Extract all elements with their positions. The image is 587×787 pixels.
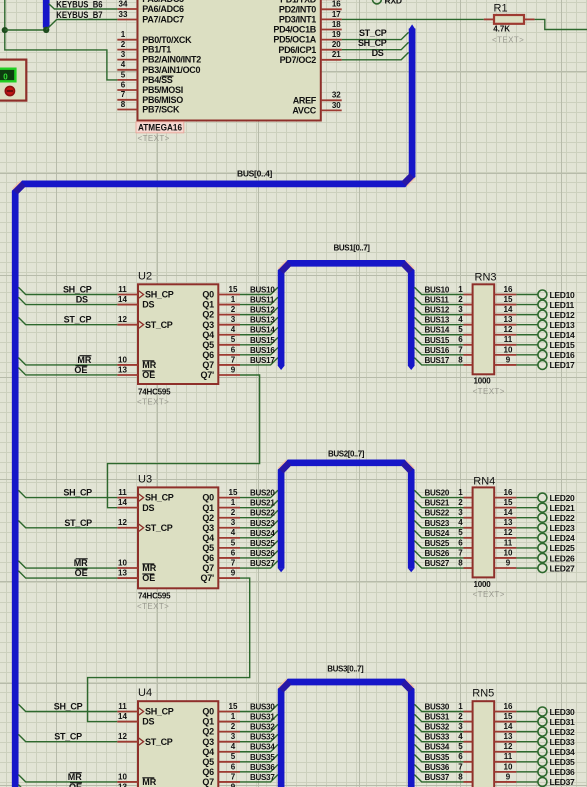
svg-text:7: 7 bbox=[121, 90, 126, 99]
svg-text:9: 9 bbox=[506, 355, 511, 364]
wire net BUS10 from bus BUS1 to RN3 pin 1 bbox=[414, 286, 463, 295]
RN4 pin 6 bbox=[458, 538, 472, 548]
svg-text:14: 14 bbox=[118, 498, 127, 507]
svg-text:16: 16 bbox=[504, 488, 513, 497]
svg-text:R1: R1 bbox=[494, 3, 508, 15]
RN5 pin 14 bbox=[494, 722, 516, 732]
U2 pin 7 (Q7) bbox=[202, 355, 240, 370]
U2 pin 6 (Q6) bbox=[202, 345, 240, 360]
RN4 pin 14 bbox=[494, 508, 516, 518]
svg-text:Q4: Q4 bbox=[202, 330, 214, 340]
resistor R1 (4.7K) bbox=[484, 3, 535, 45]
RN5 pin 12 bbox=[494, 742, 516, 752]
svg-text:BUS24: BUS24 bbox=[425, 529, 450, 538]
svg-text:3: 3 bbox=[121, 50, 126, 59]
wire net BUS16 from U2.Q6 to bus BUS1 bbox=[240, 346, 278, 355]
svg-text:14: 14 bbox=[504, 508, 513, 517]
svg-text:BUS15: BUS15 bbox=[250, 336, 275, 345]
svg-text:74HC595: 74HC595 bbox=[138, 592, 171, 601]
wire net BUS33 from U4.Q3 to bus BUS3 bbox=[240, 733, 278, 742]
svg-text:13: 13 bbox=[118, 568, 127, 577]
RN5 pin 9 bbox=[494, 772, 516, 782]
svg-text:4: 4 bbox=[458, 315, 463, 324]
wire net BUS27 from bus BUS2 to RN4 pin 8 bbox=[414, 559, 463, 568]
terminal LED20 bbox=[516, 493, 575, 503]
U2 pin 11 (SH_CP) bbox=[117, 285, 174, 300]
RN3 pin 13 bbox=[494, 315, 516, 325]
red button of left component bbox=[5, 86, 14, 95]
wire: junction to KEY BUS tip bbox=[5, 29, 46, 31]
U4 pin 9 (Q7') bbox=[201, 782, 240, 787]
svg-text:BUS17: BUS17 bbox=[425, 356, 450, 365]
wire net BUS25 from bus BUS2 to RN4 pin 6 bbox=[414, 539, 463, 548]
wire net BUS35 from U4.Q5 to bus BUS3 bbox=[240, 753, 278, 762]
terminal LED21 bbox=[516, 503, 575, 513]
RN4 pin 2 bbox=[458, 498, 472, 508]
wire net BUS20 from U3.Q0 to bus BUS2 bbox=[240, 489, 278, 498]
U1 pin 21 (PD7/OC2) bbox=[280, 50, 342, 65]
terminal LED24 bbox=[516, 533, 575, 543]
U3 pin 3 (Q3) bbox=[202, 518, 240, 533]
svg-text:BUS31: BUS31 bbox=[250, 713, 275, 722]
RN4 value 1000 bbox=[473, 580, 505, 599]
RN3 value 1000 bbox=[473, 377, 505, 396]
svg-text:13: 13 bbox=[504, 732, 513, 741]
svg-text:LED26: LED26 bbox=[550, 553, 576, 563]
U2 pin 5 (Q5) bbox=[202, 335, 240, 350]
RN3 pin 2 bbox=[458, 295, 472, 305]
svg-text:1: 1 bbox=[231, 498, 236, 507]
svg-text:PB0/T0/XCK: PB0/T0/XCK bbox=[142, 35, 192, 45]
svg-text:ATMEGA16: ATMEGA16 bbox=[138, 123, 182, 133]
wire net BUS31 from bus BUS3 to RN5 pin 2 bbox=[414, 713, 463, 722]
wire net BUS22 from U3.Q2 to bus BUS2 bbox=[240, 509, 278, 518]
U2 pin 9 (Q7') bbox=[201, 365, 240, 380]
svg-text:16: 16 bbox=[332, 0, 341, 9]
terminal LED12 bbox=[516, 310, 575, 320]
wire net BUS21 from U3.Q1 to bus BUS2 bbox=[240, 499, 278, 508]
svg-text:2: 2 bbox=[458, 498, 463, 507]
svg-text:Q7: Q7 bbox=[202, 777, 214, 787]
svg-text:6: 6 bbox=[458, 335, 463, 344]
wire net BUS27 from U3.Q7 to bus BUS2 bbox=[240, 559, 278, 568]
svg-text:6: 6 bbox=[458, 752, 463, 761]
svg-text:14: 14 bbox=[504, 722, 513, 731]
svg-text:<TEXT>: <TEXT> bbox=[137, 398, 169, 407]
svg-text:<TEXT>: <TEXT> bbox=[138, 134, 170, 143]
svg-text:PD2/INT0: PD2/INT0 bbox=[279, 4, 316, 14]
resistor network RN4 (1000) bbox=[473, 475, 496, 577]
svg-text:Q1: Q1 bbox=[202, 717, 214, 727]
svg-text:1000: 1000 bbox=[474, 377, 492, 386]
svg-text:6: 6 bbox=[231, 548, 236, 557]
RN5 pin 5 bbox=[458, 742, 472, 752]
U2 pin 15 (Q0) bbox=[202, 285, 240, 300]
svg-text:U4: U4 bbox=[138, 687, 152, 699]
terminal LED11 bbox=[516, 300, 574, 310]
U1 value placeholder bbox=[138, 134, 170, 143]
wire net BUS32 from bus BUS3 to RN5 pin 3 bbox=[414, 723, 463, 732]
RN3 pin 5 bbox=[458, 325, 472, 335]
svg-text:6: 6 bbox=[458, 538, 463, 547]
wire net BUS23 from bus BUS2 to RN4 pin 4 bbox=[414, 519, 463, 528]
svg-text:SH_CP: SH_CP bbox=[145, 493, 174, 503]
U1 pin 1 (PB0/T0/XCK) bbox=[117, 30, 192, 45]
svg-text:7: 7 bbox=[231, 558, 236, 567]
svg-text:SH_CP: SH_CP bbox=[54, 702, 83, 712]
svg-text:AVCC: AVCC bbox=[292, 106, 316, 116]
svg-text:SH_CP: SH_CP bbox=[145, 707, 174, 717]
svg-text:Q7: Q7 bbox=[202, 360, 214, 370]
svg-text:18: 18 bbox=[332, 20, 341, 29]
svg-text:Q1: Q1 bbox=[202, 300, 214, 310]
bus BUS2[0..7] bbox=[278, 450, 415, 573]
wire net BUS21 from bus BUS2 to RN4 pin 2 bbox=[414, 499, 463, 508]
wire net BUS32 from U4.Q2 to bus BUS3 bbox=[240, 723, 278, 732]
wire net OE from bus to U2 bbox=[18, 365, 117, 375]
wire net BUS26 from U3.Q6 to bus BUS2 bbox=[240, 549, 278, 558]
svg-text:Q0: Q0 bbox=[202, 707, 214, 717]
svg-text:12: 12 bbox=[118, 518, 127, 527]
svg-text:LED31: LED31 bbox=[550, 717, 576, 727]
svg-text:2: 2 bbox=[458, 712, 463, 721]
svg-text:8: 8 bbox=[121, 100, 126, 109]
RN4 pin 5 bbox=[458, 528, 472, 538]
U1 part name label ATMEGA16 bbox=[136, 122, 184, 133]
svg-text:BUS32: BUS32 bbox=[425, 723, 450, 732]
svg-text:7: 7 bbox=[458, 548, 463, 557]
svg-text:BUS27: BUS27 bbox=[250, 559, 275, 568]
U1 pin 18 (PD4/OC1B) bbox=[273, 20, 341, 35]
U4 pin 13 (OE) bbox=[117, 782, 155, 787]
U4 pin 10 (MR) bbox=[117, 772, 156, 787]
svg-text:4.7K: 4.7K bbox=[493, 24, 510, 33]
svg-text:MR: MR bbox=[74, 558, 88, 568]
wire net SH_CP from bus to U3 bbox=[18, 488, 117, 498]
wire net MR from bus to U3 bbox=[18, 558, 117, 568]
bus BUS[0..4] main control bus bbox=[13, 24, 416, 787]
wire net BUS37 from U4.Q7 to bus BUS3 bbox=[240, 773, 278, 782]
svg-text:5: 5 bbox=[231, 335, 236, 344]
wire net BUS24 from U3.Q4 to bus BUS2 bbox=[240, 529, 278, 538]
svg-text:LED30: LED30 bbox=[550, 707, 576, 717]
svg-text:ST_CP: ST_CP bbox=[359, 28, 387, 38]
U3 pin 1 (Q1) bbox=[202, 498, 240, 513]
U1 pin 19 (PD5/OC1A) bbox=[273, 30, 341, 45]
svg-text:Q3: Q3 bbox=[202, 737, 214, 747]
svg-text:LED22: LED22 bbox=[550, 513, 576, 523]
wire net BUS25 from U3.Q5 to bus BUS2 bbox=[240, 539, 278, 548]
RN4 pin 7 bbox=[458, 548, 472, 558]
svg-text:PD4/OC1B: PD4/OC1B bbox=[273, 25, 316, 35]
terminal LED26 bbox=[516, 553, 575, 563]
svg-text:15: 15 bbox=[504, 498, 513, 507]
svg-text:BUS11: BUS11 bbox=[425, 296, 450, 305]
svg-text:10: 10 bbox=[504, 345, 513, 354]
svg-text:15: 15 bbox=[504, 295, 513, 304]
U4 pin 11 (SH_CP) bbox=[117, 702, 174, 717]
terminal LED14 bbox=[516, 330, 575, 340]
svg-text:3: 3 bbox=[231, 732, 236, 741]
resistor network RN3 (1000) bbox=[473, 271, 497, 374]
svg-text:Q6: Q6 bbox=[202, 767, 214, 777]
RN3 pin 6 bbox=[458, 335, 472, 345]
svg-text:BUS30: BUS30 bbox=[250, 703, 275, 712]
wire net MR from bus to U4 bbox=[18, 772, 117, 782]
U1 pin 16 (PD2/INT0) bbox=[279, 0, 342, 14]
RN3 pin 12 bbox=[494, 325, 516, 335]
svg-text:Q7': Q7' bbox=[201, 573, 214, 583]
resistor network RN5 (1000) bbox=[472, 687, 494, 787]
svg-text:LED13: LED13 bbox=[550, 320, 576, 330]
RN4 pin 1 bbox=[458, 488, 472, 498]
junction on left vertical wire bbox=[2, 27, 8, 33]
svg-text:DS: DS bbox=[142, 300, 154, 310]
svg-text:4: 4 bbox=[458, 518, 463, 527]
wire ST_CP from U1 PD5/OC1A to bus bbox=[342, 28, 409, 40]
U1 pin 35 (PA5/ADC5) bbox=[117, 0, 184, 4]
svg-text:RN4: RN4 bbox=[473, 475, 495, 487]
svg-text:Q2: Q2 bbox=[202, 727, 214, 737]
U4 pin 5 (Q5) bbox=[202, 752, 240, 767]
bus BUS1[0..7] bbox=[278, 243, 415, 370]
RN4 pin 10 bbox=[494, 548, 516, 558]
svg-text:RXD: RXD bbox=[385, 0, 402, 6]
wire net BUS17 from U2.Q7 to bus BUS1 bbox=[240, 356, 278, 365]
svg-text:33: 33 bbox=[119, 10, 128, 19]
svg-text:<TEXT>: <TEXT> bbox=[492, 35, 524, 44]
svg-text:9: 9 bbox=[506, 772, 511, 781]
svg-text:17: 17 bbox=[332, 10, 341, 19]
wire net BUS34 from U4.Q4 to bus BUS3 bbox=[240, 743, 278, 752]
U4 pin 1 (Q1) bbox=[202, 712, 240, 727]
svg-text:Q2: Q2 bbox=[202, 513, 214, 523]
svg-text:BUS21: BUS21 bbox=[425, 499, 450, 508]
svg-text:12: 12 bbox=[504, 528, 513, 537]
svg-text:1000: 1000 bbox=[474, 580, 492, 589]
RN3 pin 16 bbox=[494, 285, 516, 295]
svg-text:13: 13 bbox=[504, 518, 513, 527]
svg-text:OE: OE bbox=[142, 370, 155, 380]
svg-text:BUS12: BUS12 bbox=[250, 306, 275, 315]
U4 pin 4 (Q4) bbox=[202, 742, 240, 757]
svg-text:7: 7 bbox=[458, 762, 463, 771]
U4 pin 2 (Q2) bbox=[202, 722, 240, 737]
svg-text:7: 7 bbox=[231, 772, 236, 781]
RN3 pin 1 bbox=[458, 285, 472, 295]
IC U2 74HC595 bbox=[138, 270, 218, 384]
RN4 pin 11 bbox=[494, 538, 516, 548]
U2 pin 14 (DS) bbox=[117, 295, 154, 310]
svg-text:3: 3 bbox=[458, 722, 463, 731]
svg-text:Q2: Q2 bbox=[202, 310, 214, 320]
svg-text:10: 10 bbox=[504, 548, 513, 557]
svg-text:OE: OE bbox=[75, 568, 88, 578]
wire cascade U3.Q7' to U4.DS bbox=[88, 578, 250, 722]
wire net BUS23 from U3.Q3 to bus BUS2 bbox=[240, 519, 278, 528]
RN3 pin 7 bbox=[458, 345, 472, 355]
wire net BUS33 from bus BUS3 to RN5 pin 4 bbox=[414, 733, 463, 742]
svg-text:16: 16 bbox=[504, 285, 513, 294]
svg-text:LED34: LED34 bbox=[550, 747, 576, 757]
wire net SH_CP from bus to U4 bbox=[18, 702, 117, 712]
svg-text:2: 2 bbox=[231, 508, 236, 517]
svg-text:13: 13 bbox=[118, 782, 127, 787]
U1 pin 20 (PD6/ICP1) bbox=[278, 40, 341, 55]
svg-text:11: 11 bbox=[504, 335, 513, 344]
svg-text:4: 4 bbox=[231, 742, 236, 751]
svg-text:BUS17: BUS17 bbox=[250, 356, 275, 365]
svg-text:BUS11: BUS11 bbox=[250, 296, 275, 305]
svg-text:PD6/ICP1: PD6/ICP1 bbox=[278, 45, 316, 55]
RN4 pin 15 bbox=[494, 498, 516, 508]
U3 pin 5 (Q5) bbox=[202, 538, 240, 553]
svg-text:DS: DS bbox=[76, 295, 88, 305]
svg-text:PB5/MOSI: PB5/MOSI bbox=[142, 85, 183, 95]
wire net ST_CP from bus to U2 bbox=[18, 315, 117, 325]
svg-text:BUS24: BUS24 bbox=[250, 529, 275, 538]
svg-text:8: 8 bbox=[458, 355, 463, 364]
U1 pin 4 (PB3/AIN1/OC0) bbox=[117, 60, 200, 75]
svg-text:BUS23: BUS23 bbox=[425, 519, 450, 528]
svg-text:MR: MR bbox=[68, 772, 82, 782]
U2 pin 1 (Q1) bbox=[202, 295, 240, 310]
wire net BUS26 from bus BUS2 to RN4 pin 7 bbox=[414, 549, 463, 558]
U1 pin 32 (AREF) bbox=[293, 91, 342, 106]
RN4 pin 9 bbox=[494, 558, 516, 568]
IC U4 74HC595 bbox=[138, 687, 218, 787]
IC U3 74HC595 bbox=[138, 473, 218, 588]
wire net BUS15 from U2.Q5 to bus BUS1 bbox=[240, 336, 278, 345]
wire net BUS34 from bus BUS3 to RN5 pin 5 bbox=[414, 743, 463, 752]
RN3 pin 11 bbox=[494, 335, 516, 345]
svg-text:5: 5 bbox=[231, 752, 236, 761]
svg-text:1: 1 bbox=[458, 488, 463, 497]
svg-text:ST_CP: ST_CP bbox=[145, 320, 173, 330]
svg-text:BUS10: BUS10 bbox=[250, 286, 275, 295]
U2 pin 3 (Q3) bbox=[202, 315, 240, 330]
svg-text:<TEXT>: <TEXT> bbox=[473, 387, 505, 396]
wire net BUS16 from bus BUS1 to RN3 pin 7 bbox=[414, 346, 463, 355]
svg-text:BUS36: BUS36 bbox=[250, 763, 275, 772]
terminal LED37 bbox=[516, 777, 575, 787]
wire net BUS36 from U4.Q6 to bus BUS3 bbox=[240, 763, 278, 772]
svg-text:15: 15 bbox=[229, 702, 238, 711]
svg-text:DS: DS bbox=[142, 503, 154, 513]
wire net BUS13 from bus BUS1 to RN3 pin 4 bbox=[414, 316, 463, 325]
terminal LED33 bbox=[516, 737, 575, 747]
svg-text:8: 8 bbox=[458, 558, 463, 567]
svg-text:LED32: LED32 bbox=[550, 727, 576, 737]
svg-text:DS: DS bbox=[142, 717, 154, 727]
wire net OE from bus to U4 bbox=[18, 782, 117, 787]
svg-text:LED27: LED27 bbox=[550, 563, 576, 573]
svg-text:<TEXT>: <TEXT> bbox=[473, 590, 505, 599]
svg-text:5: 5 bbox=[121, 70, 126, 79]
svg-text:BUS26: BUS26 bbox=[250, 549, 275, 558]
svg-text:LED20: LED20 bbox=[550, 493, 576, 503]
wire net BUS30 from U4.Q0 to bus BUS3 bbox=[240, 703, 278, 712]
svg-text:Q5: Q5 bbox=[202, 543, 214, 553]
svg-text:BUS23: BUS23 bbox=[250, 519, 275, 528]
svg-text:BUS2[0..7]: BUS2[0..7] bbox=[328, 450, 365, 459]
svg-text:1: 1 bbox=[121, 30, 126, 39]
svg-text:10: 10 bbox=[118, 772, 127, 781]
svg-text:LED21: LED21 bbox=[550, 503, 576, 513]
svg-text:4: 4 bbox=[231, 325, 236, 334]
wire net BUS12 from bus BUS1 to RN3 pin 3 bbox=[414, 306, 463, 315]
RN3 pin 14 bbox=[494, 305, 516, 315]
svg-text:BUS22: BUS22 bbox=[250, 509, 275, 518]
terminal LED34 bbox=[516, 747, 575, 757]
svg-text:12: 12 bbox=[118, 315, 127, 324]
svg-text:10: 10 bbox=[118, 558, 127, 567]
wire net BUS30 from bus BUS3 to RN5 pin 1 bbox=[414, 703, 463, 712]
svg-text:11: 11 bbox=[118, 285, 127, 294]
wire U1 PD3/INT1 to R1 bbox=[342, 18, 484, 20]
RN3 pin 9 bbox=[494, 355, 516, 365]
svg-text:ST_CP: ST_CP bbox=[145, 523, 173, 533]
svg-text:BUS35: BUS35 bbox=[425, 753, 450, 762]
wire net BUS20 from bus BUS2 to RN4 pin 1 bbox=[414, 489, 463, 498]
U1 pin 34 (PA6/ADC6) bbox=[117, 0, 184, 14]
svg-text:LED17: LED17 bbox=[550, 360, 576, 370]
U4 pin 7 (Q7) bbox=[202, 772, 240, 787]
svg-text:11: 11 bbox=[504, 752, 513, 761]
svg-text:6: 6 bbox=[231, 345, 236, 354]
svg-text:BUS34: BUS34 bbox=[250, 743, 275, 752]
U2 pin 12 (ST_CP) bbox=[117, 315, 173, 330]
U3 pin 15 (Q0) bbox=[202, 488, 240, 503]
terminal LED23 bbox=[516, 523, 575, 533]
svg-text:12: 12 bbox=[504, 742, 513, 751]
wire net BUS13 from U2.Q3 to bus BUS1 bbox=[240, 316, 278, 325]
RN4 pin 4 bbox=[458, 518, 472, 528]
svg-text:PD7/OC2: PD7/OC2 bbox=[280, 55, 317, 65]
svg-text:BUS33: BUS33 bbox=[250, 733, 275, 742]
wire net ST_CP from bus to U3 bbox=[18, 518, 117, 528]
svg-text:LED14: LED14 bbox=[550, 330, 576, 340]
U1 pin 8 (PB7/SCK) bbox=[117, 100, 180, 115]
U1 pin 2 (PB1/T1) bbox=[117, 40, 171, 55]
terminal LED10 bbox=[516, 290, 575, 300]
svg-text:9: 9 bbox=[231, 365, 236, 374]
bus BUS3[0..7] bbox=[278, 664, 414, 787]
terminal LED36 bbox=[516, 767, 575, 777]
wire KEYBUS_B7 to U1 pin 33 bbox=[46, 10, 117, 30]
svg-text:PA7/ADC7: PA7/ADC7 bbox=[142, 15, 184, 25]
svg-text:14: 14 bbox=[118, 712, 127, 721]
svg-text:SH_CP: SH_CP bbox=[145, 290, 174, 300]
RN3 pin 8 bbox=[458, 355, 472, 365]
svg-text:LED37: LED37 bbox=[550, 777, 576, 787]
wire net BUS35 from bus BUS3 to RN5 pin 6 bbox=[414, 753, 463, 762]
svg-text:BUS[0..4]: BUS[0..4] bbox=[237, 168, 273, 178]
U3 pin 7 (Q7) bbox=[202, 558, 240, 573]
svg-text:9: 9 bbox=[231, 568, 236, 577]
svg-text:LED35: LED35 bbox=[550, 757, 576, 767]
svg-text:30: 30 bbox=[332, 101, 341, 110]
svg-text:Q5: Q5 bbox=[202, 757, 214, 767]
wire net BUS11 from U2.Q1 to bus BUS1 bbox=[240, 296, 278, 305]
RN3 pin 15 bbox=[494, 295, 516, 305]
svg-text:RN5: RN5 bbox=[472, 687, 494, 699]
svg-text:Q3: Q3 bbox=[202, 320, 214, 330]
wire net MR from bus to U2 bbox=[18, 355, 117, 365]
svg-text:BUS16: BUS16 bbox=[250, 346, 275, 355]
wire net BUS11 from bus BUS1 to RN3 pin 2 bbox=[414, 296, 463, 305]
svg-text:4: 4 bbox=[121, 60, 126, 69]
